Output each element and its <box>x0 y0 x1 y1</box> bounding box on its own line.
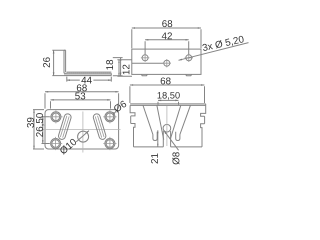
dim 68 top line <box>132 27 201 29</box>
left pocket <box>153 132 157 141</box>
serrated pad on base <box>67 72 112 73</box>
profile outline <box>130 105 135 146</box>
dim 68 left-view extension lines <box>45 93 119 108</box>
dim 18 arrows <box>120 58 122 76</box>
dim 68 top text <box>162 20 172 27</box>
hole left <box>141 54 149 62</box>
dim 26,50 line <box>42 117 44 144</box>
dim 44 line <box>67 79 112 81</box>
dim 68 left-view line <box>45 91 119 93</box>
funnel left wall <box>157 105 164 139</box>
dim 18,50 line <box>158 99 179 101</box>
funnel right wall <box>170 105 181 139</box>
dim 68 profile arrows <box>130 84 205 86</box>
tab left on bottom edge <box>141 74 147 75</box>
dim 26 arrows <box>53 50 55 75</box>
dim 18,50 extension lines <box>158 102 179 105</box>
hole right <box>185 54 193 62</box>
dim 68 profile extension lines <box>130 86 205 103</box>
dim 68 top extension lines <box>132 29 201 48</box>
dim 44 extension lines <box>67 77 112 82</box>
dim 68 profile text <box>161 77 171 84</box>
outer left chamfer <box>143 105 153 134</box>
dim 26 text <box>43 57 50 67</box>
dim 68 profile line <box>130 84 205 86</box>
dim 26 line <box>53 50 55 75</box>
dim 21 text <box>151 154 158 164</box>
dim 39 text <box>27 118 34 128</box>
dim 53 arrows <box>51 99 111 101</box>
label diameter 8 <box>172 152 179 164</box>
slot right <box>92 113 106 140</box>
dim 39 extension lines <box>33 110 44 149</box>
dim 68 left-view arrows <box>45 91 119 93</box>
dim 12 extension lines <box>117 60 132 77</box>
label diameter 6 <box>113 100 127 113</box>
slit line to centre hole <box>132 62 164 64</box>
screw hole slot walls <box>163 131 170 147</box>
right pocket <box>176 132 180 141</box>
dim 18 line <box>120 58 122 76</box>
dim 42 extension lines <box>145 41 189 54</box>
profile bottom edge <box>134 146 203 148</box>
screw hole diameter 8 <box>163 124 171 132</box>
dim 12 arrows <box>118 60 120 77</box>
dim 44 arrows <box>67 79 112 81</box>
dim 18,50 text <box>158 92 180 100</box>
base plate outline <box>132 49 201 74</box>
dim 26,50 text <box>36 113 44 137</box>
dim 26 extension lines <box>52 50 65 75</box>
dim 18 text <box>106 60 113 70</box>
slot left <box>58 113 72 140</box>
tab right on bottom edge <box>186 74 192 75</box>
dim 44 text <box>81 77 91 84</box>
dim 39 arrows <box>33 110 35 149</box>
leader diameter 10 <box>76 131 89 142</box>
dim 18 extension lines <box>113 58 123 76</box>
hole centre <box>163 59 171 67</box>
dim 39 line <box>33 110 35 149</box>
centre hole diameter 10 <box>78 131 89 142</box>
dim 68 left-view text <box>77 84 87 91</box>
dim 42 arrows <box>145 39 189 41</box>
dim 53 extension lines <box>51 101 111 108</box>
bracket base plate <box>64 73 111 75</box>
dim 21 arrows <box>157 130 158 146</box>
vertical centre line <box>82 112 84 153</box>
horizontal centre line <box>42 129 121 131</box>
corner hole top-left <box>49 110 62 123</box>
dim 12 line <box>118 60 120 77</box>
dim 26,50 arrows <box>42 117 44 144</box>
corner hole bottom-left <box>49 137 62 150</box>
dim 53 line <box>51 99 111 101</box>
dim 42 line <box>145 39 189 41</box>
label diameter 10 <box>59 138 77 155</box>
dim 18,50 arrows <box>158 100 179 102</box>
label 3x diameter 5,20 <box>202 35 245 52</box>
plate outline <box>45 110 119 149</box>
dim 42 text <box>162 32 172 39</box>
leader 3x diameter 5,20 <box>179 43 249 61</box>
leader diameter 6 <box>113 111 116 115</box>
bracket vertical leg <box>64 50 66 73</box>
leader diameter 8 <box>164 131 178 150</box>
dim 26,50 extension lines <box>42 117 50 144</box>
vertical centre line profile <box>166 106 168 146</box>
outer right chamfer <box>180 105 191 134</box>
corner hole top-right <box>103 110 116 123</box>
dim 21 line <box>157 130 159 146</box>
dim 12 text <box>123 65 130 75</box>
dim 68 top arrows <box>132 27 201 29</box>
dim 53 text <box>75 92 85 99</box>
profile top double edge <box>130 104 206 106</box>
corner hole bottom-right <box>103 137 116 150</box>
